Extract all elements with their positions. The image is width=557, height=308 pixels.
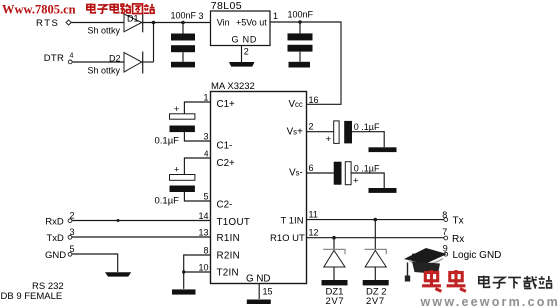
svg-text:DTR: DTR xyxy=(44,53,64,64)
junction T2IN tie xyxy=(182,270,185,273)
capacitor C4 100nF xyxy=(288,10,314,52)
svg-text:7: 7 xyxy=(442,227,447,237)
ground C3 xyxy=(171,62,195,68)
wire R2IN pin8 tie xyxy=(184,255,211,289)
capacitor C3 100nF xyxy=(171,11,197,53)
wire C3 stem xyxy=(182,23,184,62)
junction DZ1 on R1OUT line xyxy=(332,236,336,240)
diode D2 Schottky xyxy=(88,52,143,76)
wire DTR to D2 xyxy=(72,61,124,63)
svg-text:C1-: C1- xyxy=(217,141,233,152)
wire R1OUT pin12 to Rx xyxy=(307,237,445,239)
wire DZ2 top xyxy=(374,220,376,250)
terminal RTS xyxy=(66,20,71,25)
svg-text:D2: D2 xyxy=(109,53,121,63)
ground DZ1 xyxy=(322,280,348,285)
capacitor C6 0.1uF at Vs- xyxy=(334,162,380,187)
svg-text:0.1µF: 0.1µF xyxy=(155,196,180,207)
svg-text:+: + xyxy=(174,165,179,175)
terminal DTR xyxy=(68,60,72,64)
svg-text:4: 4 xyxy=(204,150,209,159)
svg-text:C2+: C2+ xyxy=(217,158,236,169)
terminal Tx pin8 xyxy=(444,218,448,222)
svg-text:Sh ottky: Sh ottky xyxy=(88,26,121,36)
svg-text:2V7: 2V7 xyxy=(326,296,345,307)
svg-text:100nF: 100nF xyxy=(171,11,197,21)
svg-text:8: 8 xyxy=(442,210,447,220)
svg-text:G ND: G ND xyxy=(232,35,258,45)
svg-text:10: 10 xyxy=(198,263,208,273)
svg-text:D1: D1 xyxy=(127,14,139,24)
zener diode DZ2 2V7 xyxy=(365,249,387,307)
svg-text:4: 4 xyxy=(70,53,74,60)
wire cap C1 to pin3 C1- xyxy=(184,132,210,141)
svg-text:Rx: Rx xyxy=(452,234,464,245)
ground C4 xyxy=(289,62,311,68)
wire D2 cathode to junction xyxy=(142,61,154,63)
svg-text:100nF: 100nF xyxy=(288,10,314,20)
wire junction vertical D1/D2 xyxy=(153,23,155,63)
junction C3 node xyxy=(181,21,185,25)
svg-text:2: 2 xyxy=(70,211,75,221)
ground C5 xyxy=(369,147,397,152)
svg-text:3: 3 xyxy=(70,227,75,237)
svg-text:11: 11 xyxy=(309,210,318,220)
svg-text:78L05: 78L05 xyxy=(211,0,242,12)
svg-text:C1+: C1+ xyxy=(217,99,236,110)
svg-text:RTS: RTS xyxy=(36,18,59,29)
capacitor C5 0.1uF at Vs+ xyxy=(326,121,380,145)
svg-text:16: 16 xyxy=(309,95,319,105)
wire GND terminal down xyxy=(72,254,118,272)
wire DZ1 bottom xyxy=(333,267,335,280)
svg-text:5: 5 xyxy=(203,192,208,202)
svg-text:R2IN: R2IN xyxy=(217,251,241,262)
svg-text:Logic GND: Logic GND xyxy=(453,250,502,261)
svg-text:GND: GND xyxy=(45,250,66,261)
svg-text:Vin: Vin xyxy=(217,18,230,28)
svg-text:3: 3 xyxy=(198,11,203,21)
ground GND terminal xyxy=(105,272,131,276)
op-amp U1 MAX3232 xyxy=(198,81,318,297)
wire GND pin15 xyxy=(258,284,260,300)
wire DZ2 bottom xyxy=(374,267,376,280)
wire RTS to D1 xyxy=(71,22,125,24)
svg-text:+: + xyxy=(353,176,359,187)
wire pin4 C2+ to cap C2 xyxy=(184,158,210,175)
svg-text:Vs+: Vs+ xyxy=(287,127,303,138)
watermark logo eeworm cap xyxy=(404,248,447,282)
svg-text:T2IN: T2IN xyxy=(217,268,239,279)
wire TxD to R1IN pin13 xyxy=(72,236,211,238)
svg-text:+: + xyxy=(174,104,179,114)
svg-text:G ND: G ND xyxy=(246,274,271,285)
svg-text:0.1µF: 0.1µF xyxy=(155,136,180,147)
wire T2IN pin10 tie xyxy=(184,271,211,273)
wire +5V rail to Vcc xyxy=(270,22,341,104)
wire cap C6 to ground xyxy=(351,173,384,188)
watermark dianzi xiazaizhan characters xyxy=(479,276,552,289)
svg-text:15: 15 xyxy=(263,287,273,297)
wire Logic GND xyxy=(412,253,444,255)
wire cap C2 to pin5 C2- xyxy=(184,192,210,201)
wire Vs- pin6 to cap C6 xyxy=(307,172,334,174)
ground 78L05 pin2 xyxy=(229,62,255,67)
label RS232 connector xyxy=(1,281,64,302)
svg-text:0 .1µF: 0 .1µF xyxy=(354,122,380,132)
watermark 7805.cn red text xyxy=(2,2,155,16)
svg-text:R1IN: R1IN xyxy=(217,233,241,244)
svg-text:12: 12 xyxy=(309,228,319,238)
svg-text:2: 2 xyxy=(309,122,314,132)
terminal Logic GND pin9 xyxy=(444,252,448,256)
junction RxD line xyxy=(117,219,120,222)
wire 78L05 GND pin 2 xyxy=(241,46,243,63)
svg-text:1: 1 xyxy=(203,93,208,103)
wire T1IN pin11 to Tx xyxy=(307,219,445,221)
wire cap C5 to ground xyxy=(352,132,384,148)
svg-text:DB 9 FEMALE: DB 9 FEMALE xyxy=(1,291,63,302)
svg-text:6: 6 xyxy=(309,163,314,173)
ground pin15 xyxy=(247,300,271,305)
wire D1 cathode to 78L05 Vin xyxy=(142,22,211,24)
watermark chongchong red characters xyxy=(422,270,466,291)
terminal Rx pin7 xyxy=(444,236,448,240)
wire RxD to T1OUT pin14 xyxy=(72,220,211,222)
svg-text:9: 9 xyxy=(443,244,448,254)
svg-text:MA X3232: MA X3232 xyxy=(211,81,255,92)
wire pin1 C1+ to cap C1 xyxy=(184,102,210,114)
svg-text:13: 13 xyxy=(198,228,208,238)
svg-text:+5Vo ut: +5Vo ut xyxy=(236,18,267,28)
svg-text:8: 8 xyxy=(203,246,208,256)
svg-text:Tx: Tx xyxy=(453,216,464,227)
junction DZ2 on T1IN line xyxy=(374,218,378,222)
svg-text:T 1IN: T 1IN xyxy=(281,216,304,227)
terminal GND pin5 xyxy=(68,252,72,256)
svg-text:3: 3 xyxy=(203,132,208,142)
capacitor C2 0.1uF polarized xyxy=(155,165,195,207)
capacitor C1 0.1uF polarized xyxy=(155,104,195,147)
svg-text:14: 14 xyxy=(198,211,208,221)
diode D1 Schottky xyxy=(88,13,143,36)
wire DZ1 top xyxy=(333,238,335,250)
svg-text:1: 1 xyxy=(273,11,278,21)
wire Vs+ pin2 to cap C5 xyxy=(307,131,334,133)
zener diode DZ1 2V7 xyxy=(323,249,345,307)
svg-text:R1O UT: R1O UT xyxy=(270,233,305,244)
svg-text:Vcc: Vcc xyxy=(288,99,302,110)
svg-text:RxD: RxD xyxy=(45,217,64,228)
svg-text:5: 5 xyxy=(70,244,75,254)
svg-text:TxD: TxD xyxy=(47,233,65,244)
svg-text:Sh ottky: Sh ottky xyxy=(88,66,121,76)
svg-text:Vs-: Vs- xyxy=(289,168,303,179)
junction D1/D2 cathodes xyxy=(152,21,156,25)
svg-text:0 .1µF: 0 .1µF xyxy=(354,164,380,174)
junction C4 node xyxy=(298,20,302,24)
svg-text:C2-: C2- xyxy=(217,200,233,211)
ground R2IN/T2IN tie xyxy=(172,289,196,294)
ground DZ2 xyxy=(363,280,389,285)
svg-text:Www.7805.cn: Www.7805.cn xyxy=(2,2,76,16)
regulator U2 78L05 xyxy=(198,0,278,56)
terminal RxD pin2 xyxy=(68,219,72,223)
terminal TxD pin3 xyxy=(68,235,72,239)
svg-text:2V7: 2V7 xyxy=(366,296,385,307)
ground C6 xyxy=(369,188,397,193)
wire C4 stem xyxy=(299,22,301,62)
svg-text:+: + xyxy=(326,134,332,145)
svg-text:www.eeworm.com: www.eeworm.com xyxy=(420,295,557,308)
svg-text:2: 2 xyxy=(244,46,249,56)
svg-text:T1OUT: T1OUT xyxy=(217,217,251,228)
